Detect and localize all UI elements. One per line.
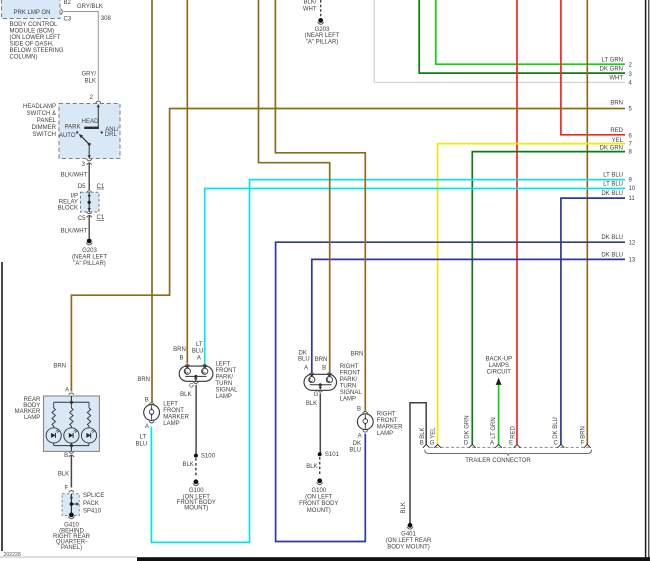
svg-text:A: A	[145, 424, 149, 430]
svg-text:DK BLU: DK BLU	[601, 191, 623, 197]
svg-text:LEFT: LEFT	[216, 362, 231, 368]
svg-text:BLK/WHT: BLK/WHT	[61, 228, 88, 234]
svg-text:LT: LT	[140, 435, 147, 441]
svg-text:MARKER: MARKER	[377, 424, 403, 430]
svg-text:LAMP: LAMP	[163, 421, 179, 427]
svg-text:8: 8	[629, 149, 633, 155]
svg-text:SIDE OF DASH,: SIDE OF DASH,	[10, 42, 54, 48]
svg-text:A: A	[197, 356, 201, 362]
svg-text:DRL: DRL	[105, 132, 118, 138]
svg-text:BLK: BLK	[85, 79, 96, 85]
svg-text:B: B	[357, 406, 361, 412]
svg-text:A: A	[490, 440, 494, 446]
svg-text:FRONT BODY: FRONT BODY	[299, 501, 338, 507]
svg-text:7: 7	[629, 142, 633, 148]
svg-text:WHT: WHT	[303, 6, 317, 12]
svg-text:TURN: TURN	[340, 384, 357, 390]
svg-text:BLK/WHT: BLK/WHT	[61, 172, 88, 178]
svg-text:BLU: BLU	[298, 356, 310, 362]
svg-text:G401: G401	[401, 531, 416, 537]
svg-text:DK BLU: DK BLU	[601, 252, 623, 258]
svg-text:BLK/: BLK/	[303, 0, 316, 5]
svg-text:BLK: BLK	[306, 464, 317, 470]
svg-text:YEL: YEL	[612, 138, 624, 144]
svg-text:B: B	[145, 397, 149, 403]
svg-text:BLU: BLU	[349, 447, 361, 453]
svg-text:BODY MOUNT): BODY MOUNT)	[387, 544, 430, 550]
svg-text:"A" PILLAR): "A" PILLAR)	[306, 40, 339, 46]
svg-text:BODY CONTROL: BODY CONTROL	[10, 22, 59, 28]
svg-text:SPLICE: SPLICE	[83, 493, 104, 499]
svg-text:BRN: BRN	[315, 357, 328, 363]
svg-text:WHT: WHT	[609, 76, 623, 82]
svg-text:MOUNT): MOUNT)	[307, 508, 331, 514]
svg-text:LT BLU: LT BLU	[603, 182, 623, 188]
svg-text:A: A	[304, 365, 308, 371]
svg-text:D5: D5	[78, 184, 86, 190]
svg-text:LAMP: LAMP	[377, 431, 393, 437]
svg-text:(ON LOWER LEFT: (ON LOWER LEFT	[10, 35, 61, 41]
svg-text:"A" PILLAR): "A" PILLAR)	[73, 261, 106, 267]
svg-text:G100: G100	[311, 488, 326, 494]
svg-text:DK GRN: DK GRN	[600, 67, 623, 73]
svg-text:RED: RED	[511, 425, 517, 438]
svg-text:BLK: BLK	[182, 462, 193, 468]
svg-text:BLU: BLU	[192, 348, 204, 354]
svg-text:GRY/BLK: GRY/BLK	[77, 4, 103, 10]
svg-text:BLK: BLK	[306, 401, 317, 407]
svg-text:E: E	[509, 440, 513, 446]
svg-text:9: 9	[629, 178, 633, 184]
svg-text:3: 3	[629, 72, 633, 78]
svg-text:COLUMN): COLUMN)	[10, 55, 38, 61]
svg-text:F: F	[581, 440, 585, 446]
svg-text:LT BLU: LT BLU	[603, 173, 623, 179]
svg-text:PRK LMP ON: PRK LMP ON	[14, 10, 51, 16]
svg-text:S101: S101	[325, 452, 340, 458]
svg-text:BLK: BLK	[58, 471, 69, 477]
svg-text:DK BLU: DK BLU	[601, 235, 623, 241]
svg-text:LAMPS: LAMPS	[489, 363, 509, 369]
svg-text:BACK-UP: BACK-UP	[485, 357, 512, 363]
svg-text:D: D	[464, 440, 469, 446]
svg-text:B2: B2	[64, 0, 72, 6]
svg-text:SWITCH: SWITCH	[32, 132, 56, 138]
svg-text:C: C	[554, 440, 559, 446]
svg-text:LT: LT	[196, 342, 203, 348]
svg-text:B: B	[179, 355, 183, 361]
svg-text:(ON LEFT: (ON LEFT	[305, 495, 333, 501]
svg-text:202228: 202228	[4, 552, 21, 558]
svg-text:B: B	[322, 365, 326, 371]
svg-text:SWITCH &: SWITCH &	[27, 111, 56, 117]
svg-text:5: 5	[629, 106, 633, 112]
svg-text:11: 11	[629, 196, 636, 202]
svg-text:BLK: BLK	[401, 502, 407, 513]
svg-text:B: B	[420, 440, 424, 446]
svg-text:G100: G100	[189, 488, 204, 494]
svg-text:G203: G203	[82, 248, 97, 254]
svg-text:CIRCUIT: CIRCUIT	[487, 370, 512, 376]
svg-text:13: 13	[629, 257, 636, 263]
svg-text:S100: S100	[201, 453, 216, 459]
svg-text:G: G	[314, 392, 319, 398]
svg-text:TURN: TURN	[216, 381, 233, 387]
svg-text:FRONT: FRONT	[163, 408, 184, 414]
svg-text:C3: C3	[64, 17, 72, 23]
svg-text:MARKER: MARKER	[163, 415, 189, 421]
svg-text:G: G	[189, 383, 194, 389]
svg-text:A: A	[65, 387, 69, 393]
svg-text:RIGHT: RIGHT	[377, 411, 396, 417]
svg-text:HEADLAMP: HEADLAMP	[23, 104, 56, 110]
svg-text:BLOCK: BLOCK	[58, 205, 78, 211]
svg-text:G203: G203	[315, 27, 330, 33]
svg-text:AUTO: AUTO	[59, 133, 76, 139]
svg-text:PACK: PACK	[83, 501, 99, 507]
svg-text:PANEL): PANEL)	[61, 545, 82, 551]
svg-text:4: 4	[629, 80, 633, 86]
svg-text:BLU: BLU	[136, 441, 148, 447]
svg-text:DIMMER: DIMMER	[32, 125, 57, 131]
svg-text:BLK: BLK	[180, 392, 191, 398]
svg-text:MOUNT): MOUNT)	[184, 506, 208, 512]
svg-text:BODY: BODY	[23, 403, 40, 409]
svg-text:BELOW STEERING: BELOW STEERING	[10, 48, 64, 54]
svg-text:BRN: BRN	[351, 351, 364, 357]
svg-text:G: G	[430, 440, 435, 446]
svg-text:YEL: YEL	[430, 427, 436, 439]
svg-text:BRN: BRN	[137, 377, 150, 383]
svg-text:308: 308	[101, 16, 112, 22]
svg-text:REAR: REAR	[24, 397, 41, 403]
svg-text:BRN: BRN	[610, 101, 623, 107]
svg-text:TRAILER CONNECTOR: TRAILER CONNECTOR	[465, 458, 531, 464]
svg-text:BRN: BRN	[581, 426, 587, 439]
svg-text:3: 3	[82, 162, 86, 168]
svg-text:C5: C5	[78, 216, 86, 222]
svg-text:2: 2	[90, 95, 94, 101]
svg-text:(ON LEFT REAR: (ON LEFT REAR	[386, 538, 432, 544]
svg-text:MODULE (BCM): MODULE (BCM)	[10, 29, 55, 35]
svg-text:PARK: PARK	[65, 125, 81, 131]
svg-text:LT GRN: LT GRN	[491, 417, 497, 438]
svg-text:12: 12	[629, 241, 636, 247]
svg-text:BLK: BLK	[420, 427, 426, 438]
svg-text:(NEAR LEFT: (NEAR LEFT	[72, 255, 107, 261]
svg-text:(NEAR LEFT: (NEAR LEFT	[304, 33, 339, 39]
svg-text:LEFT: LEFT	[163, 402, 178, 408]
svg-text:B: B	[64, 453, 68, 459]
svg-text:SIGNAL: SIGNAL	[216, 388, 239, 394]
svg-text:GRY/: GRY/	[81, 72, 96, 78]
svg-text:DK: DK	[353, 441, 361, 447]
svg-text:HEAD: HEAD	[82, 119, 99, 125]
svg-text:FRONT: FRONT	[340, 371, 361, 377]
svg-text:F: F	[65, 485, 69, 491]
svg-text:BRN: BRN	[53, 364, 66, 370]
svg-text:PANEL: PANEL	[37, 118, 57, 124]
svg-text:SIGNAL: SIGNAL	[340, 390, 363, 396]
svg-text:LAMP: LAMP	[340, 397, 356, 403]
svg-text:6: 6	[629, 133, 633, 139]
svg-text:PARK/: PARK/	[216, 375, 234, 381]
svg-text:A: A	[358, 433, 362, 439]
svg-text:DK GRN: DK GRN	[464, 415, 470, 438]
svg-text:2: 2	[629, 62, 633, 68]
svg-text:DK BLU: DK BLU	[553, 417, 559, 439]
svg-text:SP410: SP410	[83, 508, 102, 514]
svg-text:FRONT: FRONT	[377, 418, 398, 424]
svg-text:LT GRN: LT GRN	[602, 57, 623, 63]
svg-text:RIGHT: RIGHT	[340, 364, 359, 370]
svg-text:RED: RED	[610, 128, 623, 134]
svg-text:LAMP: LAMP	[216, 394, 232, 400]
svg-text:MARKER: MARKER	[15, 409, 41, 415]
svg-text:FRONT: FRONT	[216, 368, 237, 374]
svg-text:LAMP: LAMP	[24, 415, 40, 421]
svg-text:DK GRN: DK GRN	[600, 146, 623, 152]
svg-text:10: 10	[629, 186, 636, 192]
svg-text:BRN: BRN	[173, 347, 186, 353]
svg-text:PARK/: PARK/	[340, 377, 358, 383]
